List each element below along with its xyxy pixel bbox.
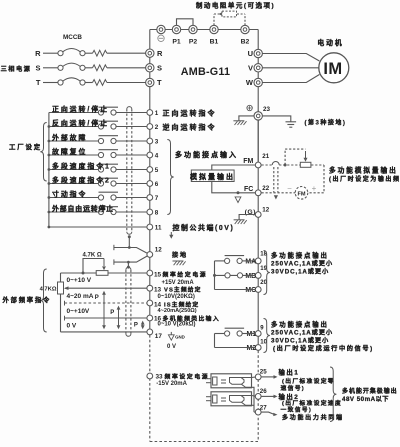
- svg-text:M2: M2: [247, 345, 257, 352]
- svg-text:V: V: [248, 64, 253, 73]
- svg-text:反向运转/停止: 反向运转/停止: [52, 118, 109, 127]
- svg-text:寸动指令: 寸动指令: [52, 189, 87, 198]
- svg-text:250VAC,1A或更小: 250VAC,1A或更小: [271, 328, 333, 336]
- svg-text:多功能接点输出: 多功能接点输出: [271, 250, 329, 259]
- svg-text:0~+10V: 0~+10V: [67, 308, 90, 315]
- svg-text:−: −: [287, 184, 292, 193]
- svg-text:FM: FM: [243, 158, 253, 165]
- svg-text:FC: FC: [244, 186, 253, 193]
- svg-text:0 V: 0 V: [67, 323, 77, 330]
- svg-text:7: 7: [155, 195, 159, 202]
- svg-text:频率设定电源: 频率设定电源: [165, 372, 210, 380]
- svg-text:R: R: [157, 49, 163, 58]
- svg-text:22: 22: [262, 185, 269, 192]
- svg-text:VS主频给定: VS主频给定: [164, 286, 202, 294]
- svg-text:控制公共端(0V): 控制公共端(0V): [173, 223, 235, 232]
- svg-text:逆向运转指令: 逆向运转指令: [163, 122, 217, 131]
- svg-text:输出1: 输出1: [279, 367, 300, 376]
- svg-text:P2: P2: [189, 39, 198, 46]
- svg-text:13: 13: [154, 287, 162, 294]
- svg-text:电动机: 电动机: [317, 38, 343, 47]
- svg-text:4.7K Ω: 4.7K Ω: [83, 253, 102, 259]
- svg-text:外部故障: 外部故障: [51, 133, 87, 142]
- svg-text:多功能模拟量输出: 多功能模拟量输出: [329, 166, 398, 175]
- svg-text:250VAC,1A或更小: 250VAC,1A或更小: [271, 259, 333, 267]
- svg-text:T: T: [36, 78, 41, 87]
- svg-text:故障复位: 故障复位: [52, 147, 87, 156]
- svg-text:多段速度指令2: 多段速度指令2: [52, 175, 111, 184]
- svg-text:27: 27: [260, 405, 267, 412]
- svg-text:多功能出力共同端: 多功能出力共同端: [282, 414, 344, 422]
- svg-text:S: S: [157, 63, 162, 72]
- svg-text:一致信号): 一致信号): [281, 405, 313, 413]
- svg-text:-15V 20mA: -15V 20mA: [156, 381, 187, 387]
- svg-text:(出厂时设定成运行中的信号): (出厂时设定成运行中的信号): [273, 344, 374, 352]
- svg-text:工厂设定: 工厂设定: [9, 142, 42, 151]
- svg-text:接地: 接地: [172, 251, 188, 259]
- svg-text:4~20mA(250Ω): 4~20mA(250Ω): [158, 308, 197, 314]
- svg-text:12: 12: [262, 207, 269, 214]
- svg-text:制动电阻单元(可选项): 制动电阻单元(可选项): [196, 1, 275, 10]
- svg-text:(出厂标准设定零: (出厂标准设定零: [282, 377, 335, 385]
- svg-text:0~+10 V: 0~+10 V: [67, 277, 92, 284]
- svg-text:MA: MA: [245, 258, 256, 265]
- svg-text:25: 25: [260, 369, 267, 376]
- svg-text:P: P: [95, 295, 99, 301]
- svg-text:AMB-G11: AMB-G11: [181, 66, 230, 78]
- svg-text:2: 2: [155, 124, 159, 131]
- svg-text:正向运转/停止: 正向运转/停止: [52, 104, 109, 113]
- svg-text:P: P: [110, 310, 114, 316]
- svg-text:速信号): 速信号): [281, 384, 306, 392]
- svg-text:B1: B1: [210, 39, 219, 46]
- svg-text:0~10 V(20kΩ): 0~10 V(20kΩ): [158, 321, 196, 327]
- svg-text:30VDC,1A或更小: 30VDC,1A或更小: [271, 267, 329, 275]
- svg-text:0~10V(20KΩ): 0~10V(20KΩ): [158, 294, 195, 300]
- svg-text:4.7KΩ: 4.7KΩ: [40, 286, 57, 292]
- svg-text:多功能接点输入: 多功能接点输入: [175, 150, 238, 159]
- svg-text:30VDC,1A或更小: 30VDC,1A或更小: [271, 336, 329, 344]
- svg-text:输出2: 输出2: [279, 392, 300, 401]
- svg-text:P: P: [134, 323, 138, 329]
- svg-text:4~20 mA: 4~20 mA: [67, 293, 94, 300]
- svg-text:多机能开集极输出: 多机能开集极输出: [342, 387, 398, 395]
- svg-text:外部自由运转停止: 外部自由运转停止: [51, 204, 114, 213]
- svg-text:21: 21: [262, 153, 269, 160]
- svg-text:GND: GND: [175, 334, 185, 339]
- svg-text:17: 17: [155, 333, 163, 340]
- svg-text:(第3种接地): (第3种接地): [305, 118, 347, 126]
- svg-text:多功能接点输出: 多功能接点输出: [271, 319, 329, 328]
- svg-text:R: R: [35, 49, 41, 58]
- svg-text:三相电源: 三相电源: [1, 65, 32, 73]
- svg-text:外部频率指令: 外部频率指令: [3, 295, 52, 304]
- svg-text:频率给定电源: 频率给定电源: [163, 271, 208, 279]
- svg-text:12: 12: [155, 246, 163, 253]
- svg-text:1: 1: [155, 110, 159, 117]
- svg-text:B2: B2: [241, 39, 250, 46]
- svg-text:T: T: [157, 78, 162, 87]
- svg-text:P1: P1: [172, 39, 181, 46]
- svg-text:U: U: [248, 49, 253, 58]
- svg-text:多段速度指令1: 多段速度指令1: [52, 161, 111, 170]
- svg-text:48V 50mA以下: 48V 50mA以下: [342, 396, 389, 403]
- svg-text:IM: IM: [323, 60, 342, 78]
- svg-text:6: 6: [155, 181, 159, 188]
- svg-text:MCCB: MCCB: [63, 34, 82, 41]
- svg-text:+: +: [312, 184, 317, 193]
- svg-text:MB: MB: [245, 273, 256, 280]
- svg-text:26: 26: [260, 388, 267, 395]
- svg-text:正向运转指令: 正向运转指令: [163, 108, 217, 117]
- svg-text:33: 33: [156, 373, 164, 380]
- svg-text:+15V 20mA: +15V 20mA: [162, 280, 195, 286]
- svg-text:0 V: 0 V: [167, 344, 176, 350]
- svg-text:5: 5: [155, 167, 159, 174]
- svg-text:23: 23: [263, 106, 271, 113]
- svg-text:3: 3: [155, 138, 159, 145]
- svg-text:M1: M1: [247, 331, 257, 338]
- svg-text:(出厂时设定为输出频率): (出厂时设定为输出频率): [329, 175, 400, 183]
- svg-text:8: 8: [155, 209, 159, 216]
- svg-text:W: W: [246, 78, 254, 87]
- svg-text:FM: FM: [297, 191, 305, 197]
- svg-text:S: S: [35, 63, 40, 72]
- svg-text:11: 11: [155, 225, 162, 232]
- svg-text:4: 4: [155, 152, 159, 159]
- svg-text:模拟量输出: 模拟量输出: [190, 172, 235, 181]
- svg-text:15: 15: [154, 272, 162, 279]
- svg-text:MC: MC: [245, 287, 256, 294]
